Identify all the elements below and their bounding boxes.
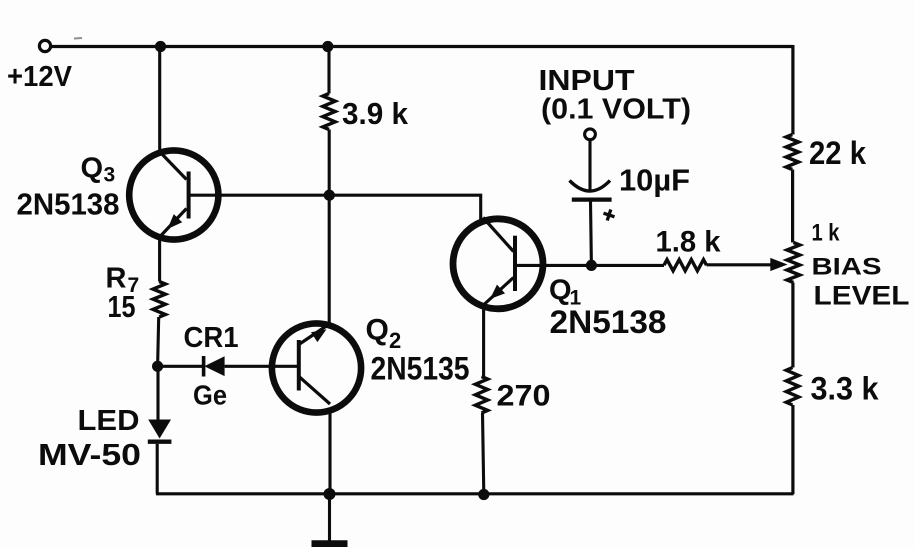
node junction R7 / CR1 / LED: [152, 361, 163, 372]
transistor Q1: [453, 218, 543, 309]
svg-text:22 k: 22 k: [809, 135, 866, 171]
wire 3.9k branch top: [327, 47, 330, 94]
svg-text:LED: LED: [78, 405, 140, 437]
label Q2: [366, 314, 402, 354]
LED MV-50: [148, 420, 172, 442]
node junction Q1 base / capacitor: [586, 260, 597, 271]
wire bottom ground rail: [156, 492, 794, 495]
potentiometer 1k element: [787, 243, 800, 283]
svg-text:INPUT: INPUT: [539, 65, 635, 97]
svg-text:MV-50: MV-50: [38, 437, 141, 472]
resistor 22k: [786, 135, 798, 170]
wire Q1 base to 1.8k: [516, 264, 664, 267]
svg-text:Q: Q: [81, 153, 104, 185]
wire node to CR1 cathode: [158, 365, 203, 368]
wire CR1 anode to Q2 base: [225, 365, 297, 368]
node junction top rail to Q3: [155, 41, 166, 52]
wire Q3 base line to Q1 collector: [189, 195, 481, 219]
wire top supply rail: [52, 45, 793, 48]
wire Q3 emitter to R7: [158, 239, 161, 282]
wire potentiometer to 3.3k: [791, 283, 794, 368]
wire right rail top: [791, 45, 794, 135]
svg-text:BIAS: BIAS: [812, 254, 882, 281]
wire R7 to CR1/LED node: [158, 317, 159, 366]
wire LED cathode to bottom rail: [156, 444, 159, 494]
svg-text:2: 2: [389, 328, 401, 353]
label Q1: [549, 275, 582, 310]
svg-text:Ge: Ge: [193, 380, 227, 411]
transistor Q3: [129, 150, 218, 239]
node junction bottom rail / 270: [478, 489, 489, 500]
svg-text:2N5138: 2N5138: [550, 304, 667, 340]
wire capacitor to Q1 base node: [589, 202, 593, 266]
wire 3.9k to Q2 emitter: [328, 130, 331, 324]
svg-text:+12V: +12V: [7, 61, 73, 93]
svg-text:Q: Q: [549, 275, 572, 307]
wire 22k to potentiometer: [791, 170, 794, 243]
svg-text:3.3 k: 3.3 k: [811, 371, 879, 407]
label R7: [106, 263, 140, 298]
label Q3: [81, 153, 116, 187]
wire Q3 collector from top rail: [158, 47, 161, 153]
svg-text:2N5138: 2N5138: [17, 187, 120, 222]
wire 1.8k to wiper arrow: [707, 263, 772, 266]
svg-text:3: 3: [104, 164, 116, 187]
potentiometer wiper arrow: [770, 258, 787, 271]
resistor R7: [153, 282, 165, 318]
wire right rail bottom: [791, 405, 794, 494]
svg-text:1 k: 1 k: [812, 220, 840, 247]
svg-text:1.8 k: 1.8 k: [656, 226, 721, 259]
svg-text:15: 15: [108, 289, 136, 324]
resistor 270: [475, 377, 487, 414]
svg-text:3.9 k: 3.9 k: [342, 96, 409, 131]
svg-text:(0.1 VOLT): (0.1 VOLT): [541, 94, 691, 126]
node junction base line / 3.9k branch: [324, 190, 335, 201]
svg-text:CR1: CR1: [184, 322, 239, 354]
capacitor 10uF: [570, 181, 617, 223]
node junction bottom rail / Q2: [324, 488, 336, 500]
wire input to capacitor: [588, 140, 591, 192]
wire Q1 emitter to 270: [482, 308, 485, 377]
wire node to LED anode: [156, 366, 159, 420]
node junction top rail to 3.9k: [322, 41, 333, 52]
svg-text:10µF: 10µF: [619, 163, 690, 198]
wire Q2 collector to bottom rail: [328, 413, 331, 494]
wire: [74, 37, 82, 40]
+12V supply terminal: [39, 40, 50, 51]
svg-text:2N5135: 2N5135: [371, 351, 470, 387]
transistor Q2: [272, 323, 361, 412]
resistor 3.3k: [786, 368, 798, 406]
svg-text:Q: Q: [366, 314, 389, 347]
svg-text:LEVEL: LEVEL: [814, 281, 910, 311]
resistor 1.8k: [664, 260, 707, 271]
wire 270 to bottom rail: [483, 413, 484, 494]
ground: [312, 494, 348, 544]
diode CR1: [204, 356, 225, 377]
input terminal: [585, 129, 596, 140]
svg-text:270: 270: [497, 380, 551, 413]
resistor 3.9k: [323, 94, 335, 130]
